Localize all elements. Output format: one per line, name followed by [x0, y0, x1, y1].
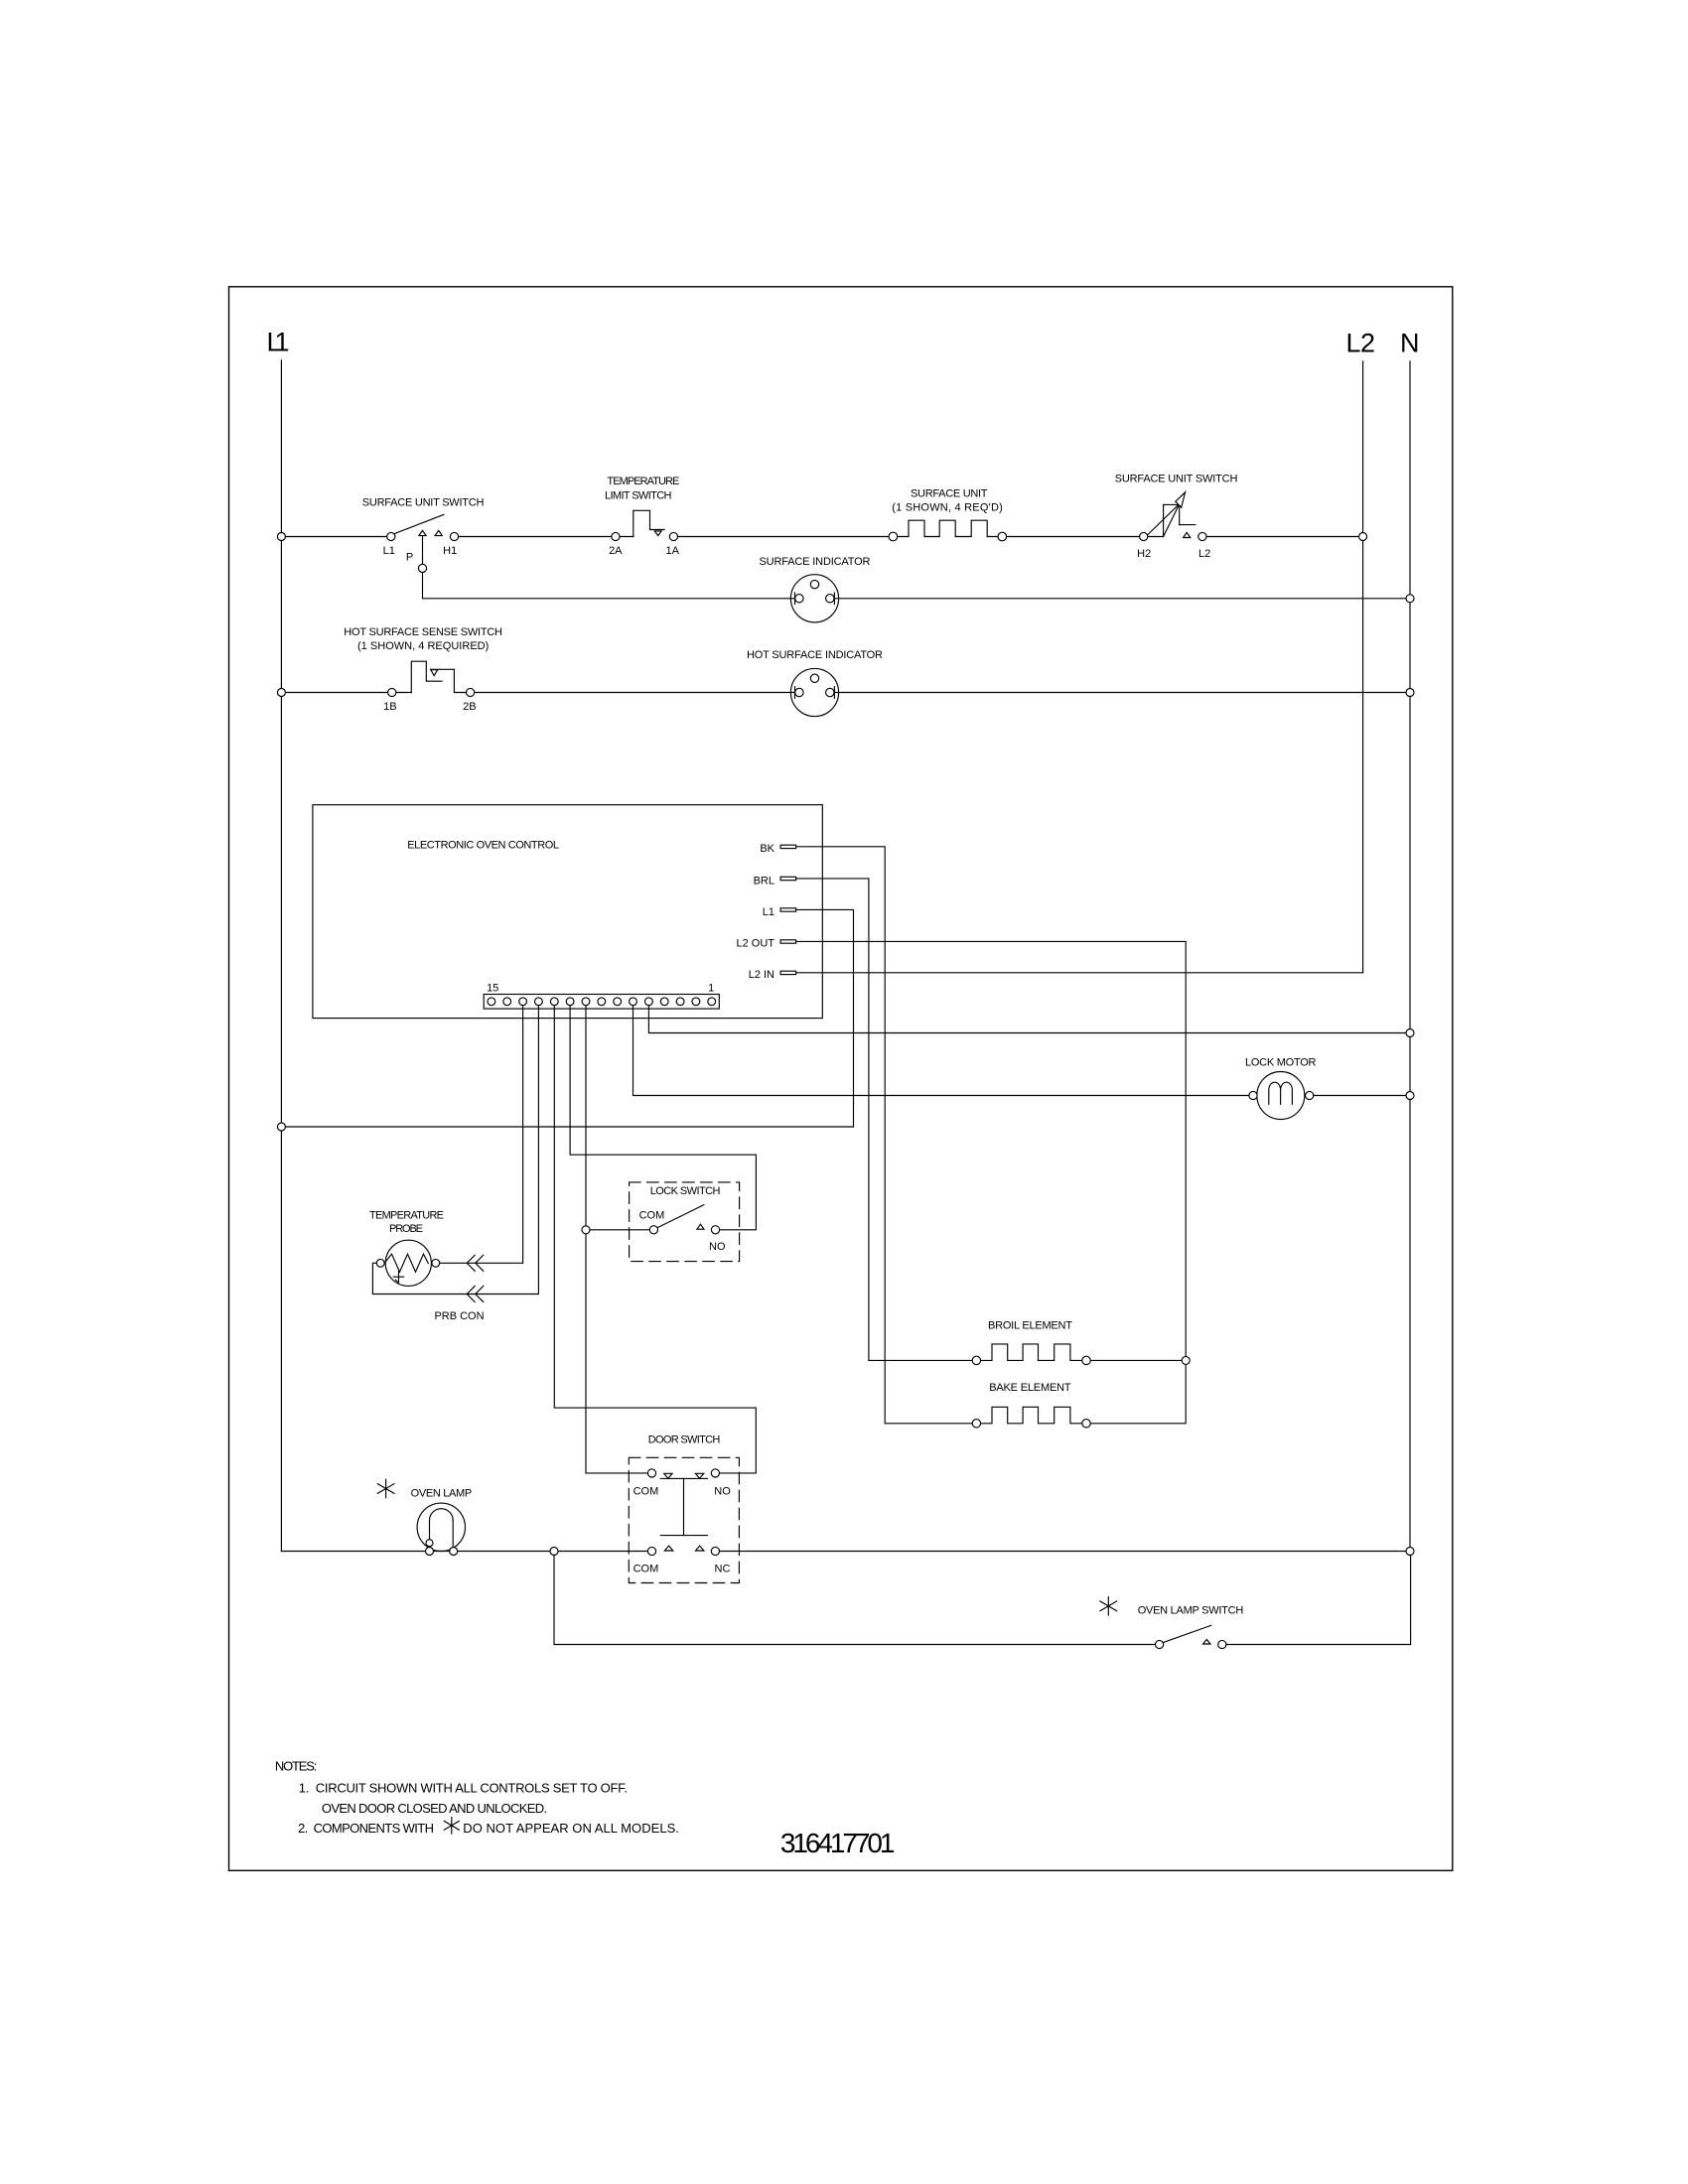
pin label BRL: [754, 876, 774, 887]
terminal door NO upper: [711, 1469, 719, 1477]
label lock NO: [709, 1241, 726, 1253]
junction N / lock motor: [1406, 1092, 1414, 1100]
terminal L1 of surface unit switch: [387, 532, 395, 540]
door switch lower contacts (COM/NC): [664, 1546, 704, 1551]
asterisk at oven lamp: [377, 1479, 394, 1497]
wire L2 IN to L2 line: [796, 972, 1363, 974]
svg-text:OVEN DOOR CLOSED AND UNLOCKED.: OVEN DOOR CLOSED AND UNLOCKED.: [322, 1801, 547, 1816]
svg-text:OVEN LAMP: OVEN LAMP: [411, 1488, 473, 1500]
note 2: [298, 1821, 679, 1836]
label door NC lower: [715, 1564, 731, 1575]
svg-text:1: 1: [708, 983, 714, 995]
terminal lamp switch left: [1156, 1640, 1164, 1648]
label bake element: [989, 1382, 1071, 1394]
svg-text:15: 15: [487, 983, 498, 995]
terminal bake left: [972, 1420, 980, 1428]
wire lamp junction down to lamp switch rail: [554, 1552, 1160, 1645]
door switch enclosure (dashed): [629, 1457, 739, 1582]
svg-text:DO NOT APPEAR ON ALL MODELS.: DO NOT APPEAR ON ALL MODELS.: [463, 1821, 679, 1836]
surface indicator pins: [795, 580, 834, 603]
pin label H2: [1137, 548, 1151, 560]
svg-text:ELECTRONIC OVEN CONTROL: ELECTRONIC OVEN CONTROL: [407, 840, 559, 852]
wire H1 to 2A: [455, 536, 633, 538]
label hot surface indicator: [747, 649, 883, 661]
label door NO upper: [714, 1486, 731, 1498]
terminal broil right: [1082, 1356, 1090, 1364]
junction L1 / row1: [277, 533, 285, 541]
label lock switch: [650, 1185, 721, 1197]
svg-text:SURFACE UNIT: SURFACE UNIT: [911, 488, 988, 500]
label surface indicator: [760, 556, 871, 568]
svg-text:OVEN LAMP SWITCH: OVEN LAMP SWITCH: [1138, 1605, 1244, 1617]
svg-text:316417701: 316417701: [780, 1828, 896, 1858]
svg-text:N: N: [1400, 329, 1420, 358]
terminal lock switch NO: [711, 1226, 719, 1234]
EOC terminal strip pins 15..1: [488, 998, 716, 1006]
terminal 1A: [669, 532, 677, 540]
wire pin10 to lock switch NO: [570, 1006, 756, 1230]
junction N / pin5: [1406, 1029, 1414, 1037]
wire pin12 to probe return: [372, 1006, 538, 1295]
pin BK spade: [780, 845, 796, 848]
svg-text:COM: COM: [633, 1564, 659, 1575]
svg-text:LOCK SWITCH: LOCK SWITCH: [650, 1185, 721, 1197]
junction L2 OUT / broil: [1182, 1356, 1190, 1364]
svg-text:LOCK MOTOR: LOCK MOTOR: [1245, 1057, 1317, 1069]
svg-text:PROBE: PROBE: [389, 1223, 423, 1235]
svg-text:SURFACE INDICATOR: SURFACE INDICATOR: [760, 556, 871, 568]
pin label 2A: [609, 545, 623, 557]
wire P to surface indicator: [423, 536, 795, 599]
oven lamp switch: [1164, 1625, 1211, 1644]
terminal surface unit left: [889, 532, 898, 541]
strip label 1: [708, 983, 714, 995]
wire L1 pin to L1 rail: [796, 909, 854, 1127]
svg-text:NO: NO: [714, 1486, 731, 1498]
wire pin5 to N: [648, 1006, 1410, 1033]
svg-text:L2: L2: [1346, 329, 1376, 358]
label door switch: [648, 1434, 721, 1446]
wire L1 to hot surface sense switch: [281, 692, 411, 694]
node L2 label: [1346, 329, 1376, 358]
terminal door COM lower: [647, 1547, 655, 1555]
terminal door NC lower: [711, 1547, 719, 1555]
wire hot surface indicator to N: [834, 692, 1410, 694]
wire L1 to surface unit switch: [281, 536, 390, 538]
svg-text:PRB CON: PRB CON: [434, 1310, 484, 1322]
pin label 1B: [383, 701, 396, 713]
EOC terminal strip: [484, 995, 719, 1010]
border frame: [229, 287, 1453, 1871]
hot surface sense switch (1B/2B): [411, 661, 794, 692]
svg-text:L2: L2: [1198, 548, 1210, 560]
terminal H2: [1140, 532, 1148, 540]
pin label L1: [383, 545, 395, 557]
probe connector chevrons PRB CON: [467, 1255, 484, 1301]
wire broil element to L2 OUT junction: [1086, 1359, 1186, 1361]
lock switch enclosure (dashed): [630, 1182, 740, 1262]
svg-text:2. COMPONENTS WITH: 2. COMPONENTS WITH: [298, 1821, 434, 1836]
terminal lamp switch right: [1218, 1640, 1226, 1648]
label oven lamp switch: [1138, 1605, 1244, 1617]
surface indicator lamp: [790, 575, 838, 622]
svg-text:TEMPERATURE: TEMPERATURE: [369, 1210, 444, 1222]
svg-text:COM: COM: [633, 1486, 659, 1498]
junction N / surface indicator: [1406, 595, 1414, 603]
wire door NC to N: [715, 1551, 1410, 1553]
svg-text:1B: 1B: [383, 701, 396, 713]
L2 supply line: [1362, 361, 1364, 973]
terminal oven lamp right: [450, 1548, 458, 1556]
terminal surface unit right: [998, 532, 1007, 541]
label temperature probe: [369, 1210, 444, 1236]
svg-text:BROIL ELEMENT: BROIL ELEMENT: [988, 1320, 1072, 1332]
svg-text:L1: L1: [267, 328, 290, 357]
svg-text:P: P: [406, 552, 413, 564]
temperature limit switch: [633, 510, 664, 536]
wire pin11 to door switch NO: [554, 1006, 756, 1473]
label PRB CON: [434, 1310, 484, 1322]
temperature probe RT1: [384, 1240, 431, 1286]
strip label 15: [487, 983, 498, 995]
N supply line: [1409, 361, 1411, 1552]
terminal 2A: [612, 532, 620, 540]
terminal door COM upper: [647, 1469, 655, 1477]
surface unit switch S1 (L1/H1): [394, 514, 444, 535]
terminal L2 of surface unit switch: [1198, 532, 1206, 540]
label door COM lower: [633, 1564, 659, 1575]
svg-text:2B: 2B: [463, 701, 476, 713]
svg-text:BRL: BRL: [754, 876, 774, 887]
svg-text:H2: H2: [1137, 548, 1151, 560]
asterisk in note 2: [444, 1818, 459, 1834]
note 1 line 1: [299, 1781, 628, 1796]
asterisk at oven lamp switch: [1100, 1597, 1117, 1615]
label lock motor: [1245, 1057, 1317, 1069]
junction N / lamp rail: [1406, 1548, 1414, 1556]
oven lamp rail from L1: [281, 1551, 651, 1553]
wire BK to bake element: [796, 847, 977, 1424]
terminal probe right: [432, 1259, 440, 1267]
pin label BK: [760, 843, 774, 855]
wire lock motor to N: [1310, 1095, 1410, 1097]
terminal P: [418, 564, 426, 572]
oven lamp DS1: [417, 1503, 465, 1551]
electronic oven control box U1: [313, 805, 822, 1019]
surface unit heating element: [893, 520, 1002, 536]
svg-text:L1: L1: [763, 906, 774, 918]
junction lamp rail / lamp switch branch: [550, 1548, 558, 1556]
svg-text:(1 SHOWN, 4 REQ'D): (1 SHOWN, 4 REQ'D): [892, 502, 1003, 514]
svg-text:L1: L1: [383, 545, 395, 557]
wire pin6 to lock motor: [633, 1006, 1254, 1096]
svg-text:DOOR SWITCH: DOOR SWITCH: [648, 1434, 721, 1446]
svg-text:HOT SURFACE INDICATOR: HOT SURFACE INDICATOR: [747, 649, 883, 661]
notes heading: [275, 1759, 317, 1774]
junction L1 / row2: [277, 689, 285, 697]
pin label L2: [1198, 548, 1210, 560]
svg-text:2A: 2A: [609, 545, 623, 557]
label door COM upper: [633, 1486, 659, 1498]
node L1 label: [267, 328, 290, 357]
svg-text:L2 IN: L2 IN: [749, 969, 774, 981]
svg-text:HOT SURFACE SENSE SWITCH: HOT SURFACE SENSE SWITCH: [344, 626, 502, 638]
node N label: [1400, 329, 1420, 358]
wire pin9 to lock switch COM and door switch COM: [586, 1006, 653, 1473]
pin label L1 (EOC): [763, 906, 774, 918]
lock switch contacts: [657, 1205, 704, 1230]
door switch upper contacts (COM/NO) with plunger: [660, 1473, 707, 1535]
svg-text:1A: 1A: [665, 545, 679, 557]
label surface unit: [892, 488, 1003, 514]
pin BRL spade: [780, 877, 796, 880]
label broil element: [988, 1320, 1072, 1332]
terminal lock motor left: [1249, 1091, 1257, 1099]
bake element: [976, 1407, 1086, 1424]
junction N / hot surface indicator: [1406, 689, 1414, 697]
pin label H1: [443, 545, 457, 557]
label electronic oven control: [407, 840, 559, 852]
svg-text:SURFACE UNIT SWITCH: SURFACE UNIT SWITCH: [362, 497, 485, 509]
svg-text:L2 OUT: L2 OUT: [736, 938, 774, 950]
oven lamp filament neck circle: [426, 1540, 433, 1547]
svg-text:(1 SHOWN, 4 REQUIRED): (1 SHOWN, 4 REQUIRED): [357, 640, 489, 652]
wire surface unit to H2: [1002, 536, 1163, 538]
hot surface indicator lamp: [790, 668, 838, 716]
hot surface indicator pins: [795, 674, 834, 697]
label hot surface sense switch: [344, 626, 502, 652]
wire L2 terminal to L2 line: [1202, 536, 1363, 538]
label oven lamp: [411, 1488, 473, 1500]
svg-text:BK: BK: [760, 843, 774, 855]
terminal H1: [450, 532, 458, 540]
terminal lock motor right: [1306, 1091, 1314, 1099]
svg-text:SURFACE UNIT SWITCH: SURFACE UNIT SWITCH: [1115, 474, 1238, 485]
junction L2 / row1: [1359, 533, 1367, 541]
terminal bake right: [1082, 1420, 1090, 1428]
pin L1 spade: [780, 908, 796, 911]
broil element: [976, 1344, 1086, 1361]
svg-text:H1: H1: [443, 545, 457, 557]
svg-text:TEMPERATURE: TEMPERATURE: [607, 476, 679, 487]
pin label L2 OUT: [736, 938, 774, 950]
label temperature limit switch: [605, 476, 679, 502]
svg-text:1. CIRCUIT SHOWN WITH ALL CON: 1. CIRCUIT SHOWN WITH ALL CONTROLS SET T…: [299, 1781, 628, 1796]
wire L2 OUT to elements: [796, 941, 1187, 1423]
svg-text:BAKE ELEMENT: BAKE ELEMENT: [989, 1382, 1071, 1394]
wire lamp switch to N: [1222, 1552, 1411, 1645]
pin L2 OUT spade: [780, 940, 796, 943]
lock motor M1: [1257, 1072, 1305, 1120]
pin label L2 IN: [749, 969, 774, 981]
svg-text:NOTES:: NOTES:: [275, 1759, 317, 1774]
wire surface indicator to N: [834, 598, 1410, 600]
terminal 1B: [388, 688, 396, 696]
pin L2 IN spade: [780, 971, 796, 974]
terminal oven lamp left: [426, 1548, 434, 1556]
L1 supply line: [280, 360, 282, 1552]
wire pin13 to probe: [436, 1006, 523, 1264]
svg-text:NO: NO: [709, 1241, 726, 1253]
terminal broil left: [972, 1356, 980, 1364]
junction L1 / EOC rail: [277, 1123, 285, 1131]
label surface unit switch left: [362, 497, 485, 509]
part number 316417701: [780, 1828, 896, 1858]
wire 1A to surface unit: [673, 536, 893, 538]
terminal probe left: [376, 1259, 384, 1267]
svg-text:LIMIT SWITCH: LIMIT SWITCH: [605, 490, 672, 502]
note 1 line 2: [322, 1801, 547, 1816]
pin label 2B: [463, 701, 476, 713]
label lock COM: [639, 1210, 665, 1222]
junction pin9 / lock switch: [582, 1226, 590, 1234]
svg-text:COM: COM: [639, 1210, 665, 1222]
pin label 1A: [665, 545, 679, 557]
pin label P: [406, 552, 413, 564]
terminal lock switch COM: [649, 1226, 657, 1234]
svg-text:NC: NC: [715, 1564, 731, 1575]
surface unit switch S2 (infinite switch H2/L2): [1148, 492, 1196, 538]
label surface unit switch right: [1115, 474, 1238, 485]
L1 rail to EOC: [281, 1126, 853, 1128]
wire BRL to broil element: [796, 879, 977, 1361]
terminal 2B: [467, 688, 475, 696]
